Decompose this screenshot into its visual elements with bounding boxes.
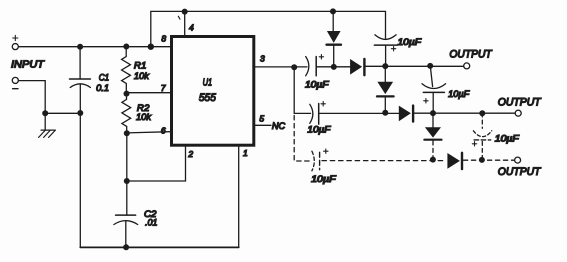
node G junction — [430, 157, 436, 163]
terminal + input — [12, 44, 18, 50]
svg-text:10µF: 10µF — [495, 134, 520, 144]
wire pin 2 — [127, 147, 186, 181]
wire ground node to C1 branch — [45, 112, 80, 114]
wire bottom ground rail — [80, 246, 238, 248]
wire node A down and stage2 feed — [294, 67, 310, 113]
node ground link junctions — [42, 110, 48, 116]
wire pin 4 — [184, 11, 186, 35]
wire stray tick mark — [178, 16, 180, 19]
wire pin 1 — [238, 147, 240, 248]
capacitor C1 0.1 — [79, 47, 81, 79]
capacitor C4 10uF top — [375, 35, 396, 40]
svg-text:10k: 10k — [134, 71, 150, 82]
resistor R1 10k — [122, 47, 131, 94]
node H junction — [479, 110, 485, 116]
svg-text:10k: 10k — [136, 112, 152, 123]
node A pin3 junction — [291, 64, 297, 70]
wire dashed stage3 to output3 — [464, 159, 515, 161]
node junctions input rail right — [148, 44, 154, 50]
svg-text:10µF: 10µF — [311, 174, 336, 184]
svg-text:10µF: 10µF — [305, 79, 329, 89]
svg-text:U1: U1 — [203, 78, 213, 89]
capacitor C3 10uF stage1 coupling — [306, 57, 309, 76]
node junction pin2 tap — [124, 178, 130, 184]
svg-text:5: 5 — [259, 114, 264, 124]
wire input + rail — [18, 46, 170, 48]
wire C1 down to bottom rail — [79, 113, 81, 247]
node E output1 junction — [427, 63, 433, 69]
wire pin 7 — [127, 92, 171, 94]
ground — [44, 113, 46, 130]
wire pin 6 — [127, 132, 171, 133]
wire dashed node A drop to stage3 — [294, 116, 311, 162]
node I junction — [479, 157, 485, 163]
node junction R1/R2 pin7 — [124, 91, 130, 97]
svg-text:OUTPUT: OUTPUT — [498, 97, 542, 109]
capacitor C2 .01 — [116, 214, 136, 216]
svg-text:R1: R1 — [134, 61, 147, 72]
diode D5 stage2 to stage3 — [432, 113, 434, 127]
svg-text:.01: .01 — [145, 217, 158, 228]
svg-text:OUTPUT: OUTPUT — [449, 49, 493, 61]
node D junction — [382, 110, 388, 116]
svg-text:7: 7 — [161, 83, 166, 93]
terminal OUTPUT 3 — [515, 157, 521, 163]
svg-text:4: 4 — [189, 23, 194, 33]
wire top V+ rail — [151, 11, 386, 46]
terminal OUTPUT 1 — [464, 63, 470, 69]
node junction top rail / pin4 — [182, 9, 188, 15]
svg-text:8: 8 — [161, 33, 166, 43]
node junction C2 / bottom rail — [123, 244, 129, 250]
svg-text:OUTPUT: OUTPUT — [498, 166, 542, 178]
terminal - input — [12, 77, 18, 83]
svg-text:NC: NC — [272, 121, 286, 131]
terminal OUTPUT 2 — [515, 110, 521, 116]
node F junction — [430, 110, 436, 116]
diode D6 series stage3 — [447, 153, 460, 169]
capacitor C8 10uF stage3 coupling dashed — [312, 151, 314, 171]
svg-text:0.1: 0.1 — [96, 83, 109, 94]
node B junction — [331, 64, 337, 70]
wire pin 5 NC — [254, 124, 271, 126]
diode D4 series stage2 — [399, 106, 411, 122]
capacitor C7 10uF output2 filter dashed — [481, 113, 483, 128]
resistor R2 10k — [122, 94, 131, 134]
wire stage2 to output2 — [413, 112, 515, 114]
svg-text:1: 1 — [243, 148, 248, 158]
diode D2 series stage1 — [350, 59, 362, 75]
op-amp U1 555 timer IC — [172, 37, 254, 146]
svg-text:INPUT: INPUT — [11, 60, 45, 71]
wire stage2 left — [319, 112, 399, 114]
node junction input rail / R1 — [123, 44, 129, 50]
svg-text:10µF: 10µF — [398, 37, 422, 47]
wire stage1 to output1 — [364, 65, 463, 67]
node junction input rail / C1 — [77, 44, 83, 50]
diode D3 stage1 to stage2 — [384, 66, 386, 82]
svg-text:555: 555 — [199, 92, 217, 104]
capacitor C6 10uF output1 filter — [430, 66, 432, 87]
wire pin 3 output — [254, 66, 307, 68]
wire C3 to node B — [316, 66, 350, 68]
node C junction — [382, 63, 388, 69]
svg-text:10µF: 10µF — [307, 125, 331, 135]
svg-text:3: 3 — [260, 54, 265, 64]
capacitor C5 10uF stage2 coupling — [310, 104, 313, 123]
svg-text:10µF: 10µF — [448, 89, 470, 99]
node junction R2/pin6 — [124, 130, 130, 136]
svg-text:2: 2 — [187, 149, 193, 159]
wire R2 node down to C2 — [126, 133, 128, 215]
wire dashed stage3 left — [322, 160, 445, 162]
diode D1 from V+ rail — [330, 8, 336, 14]
wire - input to ground node — [18, 81, 45, 114]
svg-text:6: 6 — [161, 126, 166, 136]
